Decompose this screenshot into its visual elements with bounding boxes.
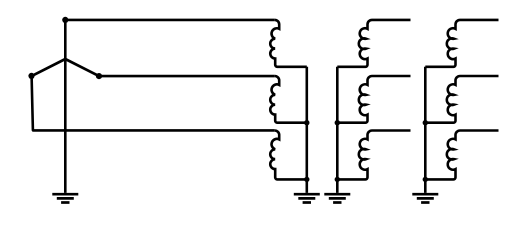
ground: source neutral <box>52 194 78 202</box>
node: bus 3 / L9 junction <box>423 177 428 182</box>
node: left star terminal dot <box>28 73 34 79</box>
wire: column 1 common bus <box>305 67 308 193</box>
wire: phase B horizontal (row 2) <box>99 75 275 78</box>
ground: column 2 bus <box>324 194 350 202</box>
ground: column 1 bus <box>294 194 320 202</box>
winding L6 (column 2, bottom) <box>337 131 410 180</box>
wire: phase A horizontal (row 1) <box>65 19 274 22</box>
node: bus 2 / L5 junction <box>335 120 340 125</box>
winding L4 (column 2, top) <box>337 20 410 67</box>
node: bus 1 / L2 junction <box>304 120 309 125</box>
winding L5 (column 2, middle) <box>337 76 410 123</box>
winding L7 (column 3, top) <box>425 20 498 67</box>
wire: left diagonal of star point <box>32 59 66 76</box>
node: top junction dot <box>62 17 68 23</box>
wire: neutral vertical of three-phase source <box>64 20 67 193</box>
wire: column 2 common bus <box>336 67 339 193</box>
winding L2 (column 1, phase B) <box>270 76 307 123</box>
node: bus 3 / L8 junction <box>423 120 428 125</box>
ground: column 3 bus <box>412 194 438 202</box>
winding L8 (column 3, middle) <box>425 76 498 123</box>
winding L1 (column 1, phase A) <box>270 20 307 67</box>
node: bus 1 / L3 junction <box>304 177 309 182</box>
node: right star terminal dot <box>96 73 102 79</box>
node: bus 2 / L6 junction <box>335 177 340 182</box>
winding L3 (column 1, phase C) <box>270 131 307 180</box>
wire: phase C down-and-across (row 3) <box>32 76 275 130</box>
wire: right diagonal of star point <box>65 59 99 76</box>
wire: column 3 common bus <box>424 67 427 193</box>
winding L9 (column 3, bottom) <box>425 131 498 180</box>
